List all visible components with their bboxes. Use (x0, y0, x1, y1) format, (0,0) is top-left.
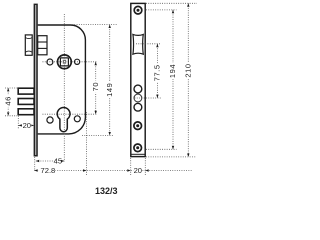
dim 20 left line (19, 124, 35, 126)
dim 46 line (7, 88, 9, 116)
extension plate bottom (146, 156, 196, 158)
dim 20 right text (133, 166, 142, 175)
svg-text:72.8: 72.8 (41, 166, 56, 175)
dim 210 text (183, 63, 192, 79)
latch cutout front (133, 34, 143, 54)
euro cylinder hole (57, 107, 70, 131)
cylinder screw hole right (74, 116, 80, 122)
dim 20 right arrows (127, 169, 130, 171)
extension case right vertical (85, 112, 87, 176)
top screw hole (134, 6, 142, 14)
extension plate right edge vertical (144, 158, 146, 176)
dim 77.5 text (152, 63, 161, 82)
dim 45 arrows (36, 160, 39, 162)
bottom screw hole upper (134, 122, 142, 130)
svg-text:20: 20 (23, 121, 31, 130)
spindle inner mark (63, 60, 65, 63)
extension line case top (72, 24, 117, 26)
svg-text:194: 194 (168, 64, 177, 78)
dim 46 text (3, 95, 12, 107)
svg-text:46: 46 (3, 96, 12, 106)
centerline horizontal through spindle (43, 61, 98, 63)
bottom screw hole lower (134, 144, 142, 152)
svg-text:45: 45 (54, 157, 62, 166)
dim 72.8 text (39, 166, 56, 175)
centerline horizontal through cylinder (43, 113, 98, 115)
handle fixing hole right (75, 59, 80, 64)
deadbolt hole top (134, 85, 142, 93)
deadbolt centerline (135, 97, 162, 99)
svg-text:149: 149 (105, 83, 114, 97)
long construction line bottom (34, 170, 193, 172)
right view faceplate front (131, 3, 145, 156)
dim 70 line (95, 62, 97, 114)
cylinder screw hole left (47, 117, 53, 123)
dim 72.8 arrows (34, 169, 37, 171)
extension plate top (146, 2, 197, 4)
lock case body (38, 25, 86, 134)
spindle follower circle (58, 55, 72, 69)
latch centerline (136, 43, 161, 45)
latch bevel arc bottom (26, 51, 33, 52)
spring box (38, 36, 47, 55)
handle fixing hole left (47, 59, 53, 65)
deadbolt hole middle (134, 94, 142, 102)
extension deadbolt edge vertical (17, 116, 19, 129)
dim 149 text (105, 82, 114, 98)
dim 210 line (187, 3, 189, 157)
extension 194 bottom (146, 148, 177, 150)
svg-text:210: 210 (183, 63, 192, 77)
deadbolt plates (18, 88, 34, 94)
svg-text:132/3: 132/3 (95, 186, 118, 196)
dim 20 left text (22, 121, 31, 130)
spindle square hole (60, 58, 68, 66)
extension faceplate bottom vertical (34, 157, 36, 171)
extension deadbolt top (5, 87, 18, 89)
extension line case bottom (82, 134, 113, 136)
dim 45 text (53, 157, 62, 166)
extension screw top center (146, 9, 177, 11)
svg-text:77.5: 77.5 (152, 64, 161, 81)
faceplate side view (34, 4, 38, 157)
dim 70 text (91, 81, 100, 93)
extension deadbolt bottom (5, 115, 17, 117)
svg-text:20: 20 (134, 166, 142, 175)
dim 45 line (36, 160, 65, 162)
dim 194 line (172, 10, 174, 149)
centerline vertical through spindle and cylinder (63, 14, 65, 162)
svg-text:70: 70 (91, 82, 100, 92)
latch bevel arc top (26, 38, 33, 39)
dim 77.5 line (156, 44, 158, 98)
dim 194 text (168, 63, 177, 79)
latch bolt (25, 35, 32, 55)
faceplate bottom cap line (131, 153, 145, 155)
extension plate left edge vertical (130, 158, 132, 176)
deadbolt hole bottom (134, 103, 142, 111)
dim 149 line (109, 25, 111, 136)
